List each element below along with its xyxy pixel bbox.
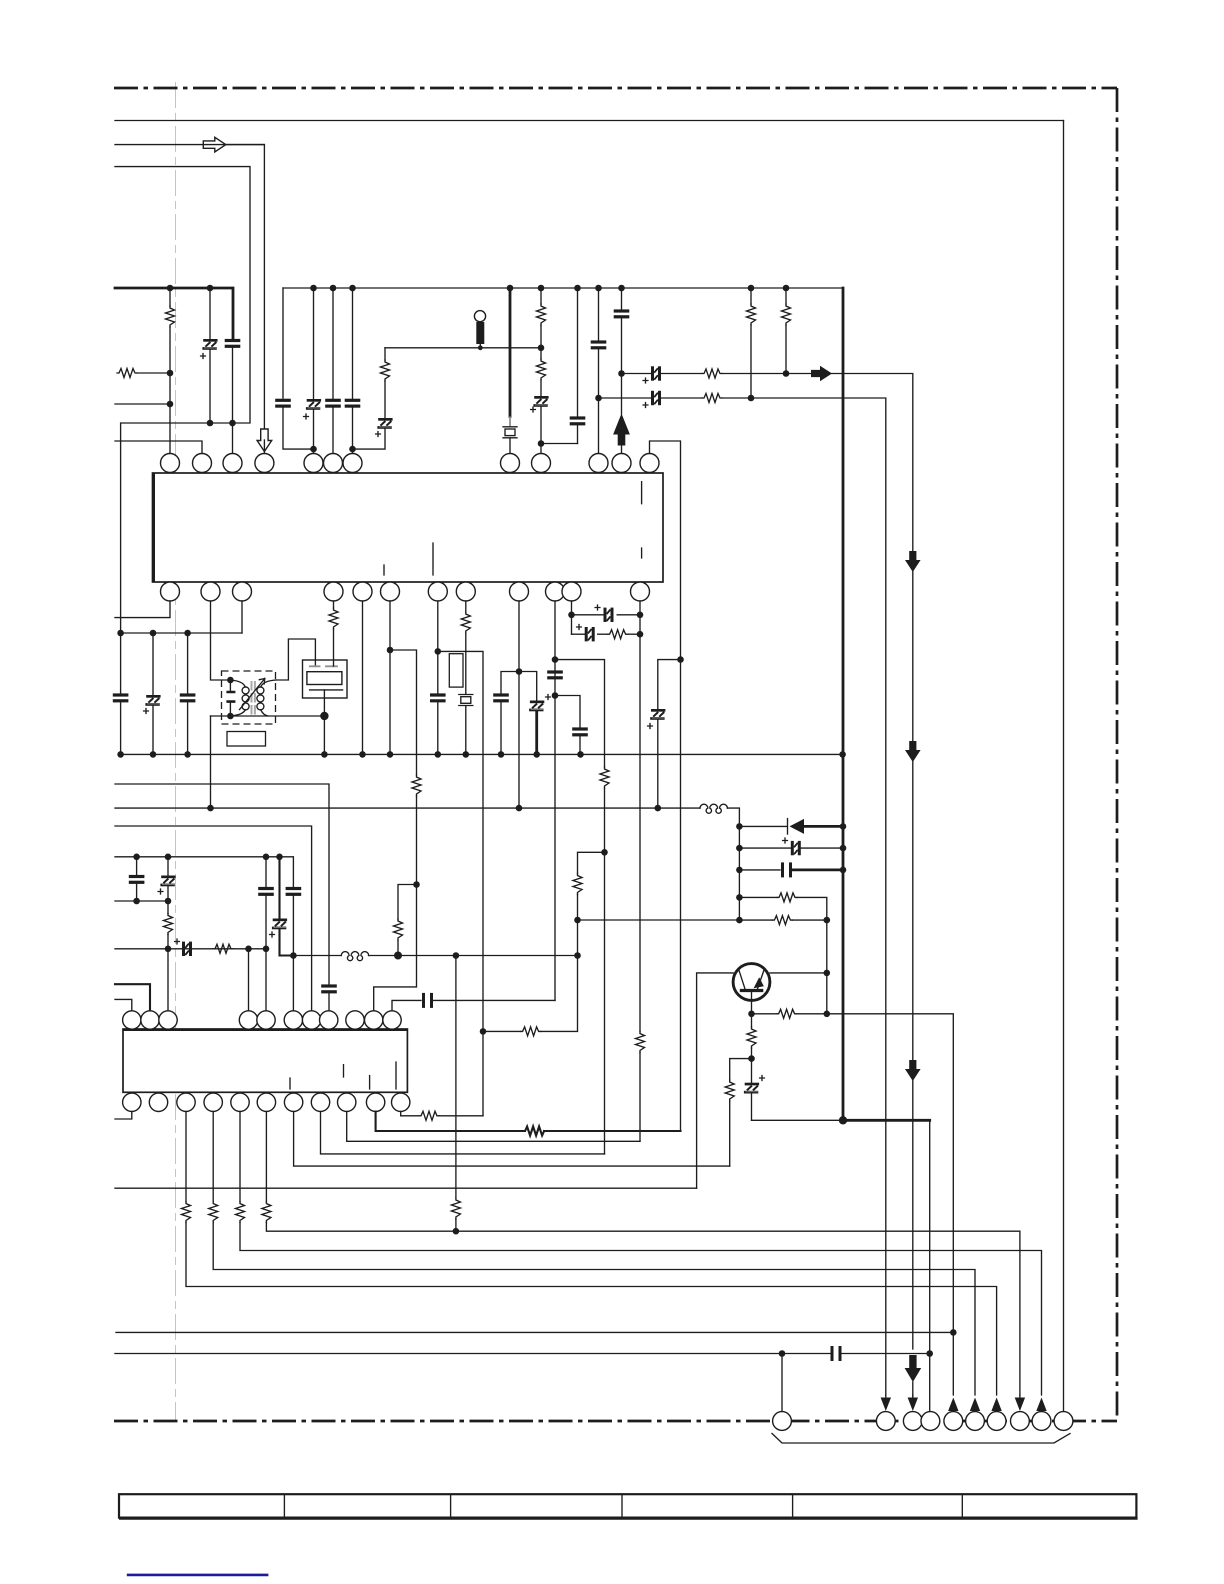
wire out row V2 (bold-ish) (376, 1112, 523, 1132)
capacitor C17 (493, 693, 509, 702)
wire C25 to feed (bold) (793, 869, 843, 872)
wire out row V1 (401, 1112, 419, 1116)
border dash-dot bottom (114, 1420, 1117, 1423)
resistor R12 (465, 601, 467, 612)
U1 bottom pin (428, 582, 447, 601)
node J52 (165, 946, 172, 953)
wire AF2 out right (751, 398, 886, 1395)
wire U2 pin2 stub (bold) (115, 984, 150, 1011)
IC U2 (stereo decoder) (123, 1029, 407, 1092)
U1 top pin (193, 454, 212, 473)
wire pin 9 lead (540, 444, 542, 454)
column junction (736, 823, 743, 830)
resistor R29 (451, 1198, 460, 1219)
ground junction (533, 751, 540, 758)
U1 bottom pin (353, 582, 372, 601)
U1 top pin (532, 454, 551, 473)
connector CN1 pin 1 (773, 1412, 792, 1431)
U2 top pin (302, 1011, 320, 1029)
U2 bottom pin (284, 1093, 302, 1111)
signal arrow A1 (hollow right) (203, 137, 226, 152)
wire bus drop X1 (bold) (509, 288, 512, 417)
resistor R21 (213, 944, 233, 953)
wire L3 row right (369, 955, 578, 957)
connector CN1 pin 7 (987, 1412, 1006, 1431)
wire Q1 left electrode (697, 973, 734, 1188)
node J34 (516, 805, 523, 812)
node J57 (453, 952, 460, 959)
resistor R20 (167, 901, 169, 914)
wire U1 pin7b to ground (437, 601, 439, 694)
wire feed to connector (bold) (843, 1119, 930, 1122)
bus junction (595, 285, 602, 292)
node J12 (618, 370, 625, 377)
wire J53 to U2 pin4 (248, 949, 250, 1011)
ground junction (184, 751, 191, 758)
node J46 (133, 854, 140, 861)
wire arrow A2 to pin 4 (263, 440, 265, 454)
ground junction (387, 751, 394, 758)
U1 top pin (589, 454, 608, 473)
wire net IN3 (115, 403, 170, 405)
signal arrow A7 (down) (905, 1060, 921, 1081)
bus junction (310, 285, 317, 292)
U1 bottom pin (233, 582, 252, 601)
net W7 tuning row (293, 955, 341, 957)
bus junction (618, 285, 625, 292)
wire J23 branch right (555, 660, 605, 767)
node J54 (263, 946, 270, 953)
capacitor C11 (electrolytic horizontal) (651, 366, 661, 380)
resistor R27 (239, 1112, 241, 1202)
resistor R15 (739, 896, 777, 898)
border solid top (115, 120, 1064, 122)
node J18 (320, 712, 328, 720)
resistor R10 (333, 601, 335, 608)
wire U1 pin10b net (518, 601, 520, 808)
resistor R4 (540, 288, 542, 304)
inductor L1 (peaking coil) (474, 311, 485, 322)
capacitor C24 (electrolytic horizontal) (739, 847, 790, 849)
wire Q1 right electrode (770, 972, 827, 974)
node J50 (133, 898, 140, 905)
node J60 (480, 1028, 487, 1035)
U1 top pin (501, 454, 520, 473)
capacitor C34 (horizontal) (422, 993, 433, 1008)
connector CN1 pin 4 (921, 1412, 940, 1431)
U2 top pin (257, 1011, 275, 1029)
node J13 (783, 370, 790, 377)
wire R22 top hook (398, 885, 417, 920)
U2 top pin (141, 1011, 159, 1029)
bus junction (507, 285, 514, 292)
wire connector pin1 feed (781, 1354, 783, 1412)
capacitor C10 (621, 288, 623, 310)
node J16 (150, 630, 157, 637)
capacitor C12 (electrolytic horizontal) (651, 391, 661, 405)
wire J43 branch left (730, 1059, 752, 1080)
node J35 (840, 823, 847, 830)
ground junction (150, 751, 157, 758)
footer table (119, 1494, 1138, 1518)
U1 bottom pin (324, 582, 343, 601)
wire U2 pin1 stub (115, 999, 132, 1010)
node J26 (574, 952, 581, 959)
signal arrow A6 (down) (905, 741, 921, 762)
node J43 (748, 1055, 755, 1062)
wire X2 to ground bus (323, 690, 325, 755)
node J5 (167, 370, 174, 377)
connector CN1 pin 2 (876, 1412, 895, 1431)
signal arrow A2 (hollow down) (257, 429, 272, 452)
ground junction (321, 751, 328, 758)
resistor R14 (608, 630, 628, 639)
wire J21 branch to column (438, 651, 483, 1115)
IC U1 (FM/IF signal processor) (153, 473, 664, 582)
wire W1 (115, 784, 329, 985)
resistor R3 (381, 360, 390, 381)
node J30 (637, 631, 644, 638)
U1 bottom pin (562, 582, 581, 601)
wire J22 right branch (519, 672, 537, 701)
capacitor C13 (120, 633, 122, 694)
wire T1 secondary to X2 (276, 639, 316, 680)
net AGC row (578, 919, 740, 921)
U2 top pin (123, 1011, 141, 1029)
U1 bottom pin (456, 582, 475, 601)
node J27 (568, 612, 575, 619)
node J53 (245, 946, 252, 953)
wire X1 to pin 8 (509, 438, 511, 454)
node J38 (824, 917, 831, 924)
wire out row V4 (321, 1112, 605, 1154)
ground junction (839, 751, 846, 758)
capacitor C18 (electrolytic) (529, 701, 544, 712)
signal arrow A3 (solid up) (613, 414, 630, 446)
node J6 (167, 401, 174, 408)
wire W5 (115, 900, 168, 902)
node J9 (538, 345, 545, 352)
capacitor C4 (electrolytic) (313, 288, 315, 399)
U2 bottom pin (231, 1093, 249, 1111)
footer link underline (127, 1574, 269, 1577)
wire U1 pin1b to edge (115, 601, 170, 618)
arrowhead out of CN1 (up) (1036, 1398, 1046, 1412)
resistor R9 (785, 288, 787, 304)
U1 bottom pin (510, 582, 529, 601)
U2 bottom pin (257, 1093, 275, 1111)
node J10 (538, 440, 545, 447)
capacitor C5 (332, 288, 334, 399)
power feed vertical (bold) (842, 288, 845, 1120)
transistor Q1 (733, 964, 770, 1001)
resistor R13 (600, 767, 609, 788)
node J40 (748, 1011, 755, 1018)
bus junction (574, 285, 581, 292)
capacitor C6 (electrolytic) (384, 381, 386, 418)
node J8 (349, 446, 356, 453)
signal arrow A5 (down) (905, 551, 921, 572)
wire U1 pin5b to ground (362, 601, 364, 754)
node J31 (677, 656, 684, 663)
U2 bottom pin (204, 1093, 222, 1111)
U2 bottom pin (392, 1093, 410, 1111)
wire C6 down to node J8 (353, 429, 386, 449)
arrowhead into CN1 (down) (881, 1398, 891, 1412)
connector CN1 pin 6 (966, 1412, 985, 1431)
U2 bottom pin (149, 1093, 167, 1111)
node J20 (413, 881, 420, 888)
U1 marking strokes (384, 482, 642, 575)
resistor R18 (751, 1014, 753, 1027)
resistor R17 (752, 1013, 777, 1015)
wire J19 branch (390, 650, 417, 775)
node J29 (637, 612, 644, 619)
row net AF2 (599, 397, 652, 399)
resistor R25 (185, 1112, 187, 1202)
signal arrow A4 (solid right) (811, 366, 832, 382)
node T1 top (227, 677, 234, 684)
U2 top pin (239, 1011, 257, 1029)
node J49 (276, 854, 283, 861)
node J41 (824, 1011, 831, 1018)
node J21 (435, 648, 442, 655)
node J37 (840, 867, 847, 874)
resistor R32 (578, 852, 605, 873)
wire A3 to pin 11 (621, 444, 623, 454)
resistor R19 (725, 1080, 734, 1101)
connector CN1 pin 9 (1032, 1412, 1051, 1431)
capacitor C29 (electrolytic horizontal) (182, 942, 192, 956)
resistor R22 (397, 941, 399, 956)
node J11 (595, 395, 602, 402)
node J3 (167, 285, 174, 292)
U2 top pin (284, 1011, 302, 1029)
resistor R24 (523, 1127, 544, 1136)
U1 bottom pin (161, 582, 180, 601)
U2 top pin (383, 1011, 401, 1029)
U2 marking strokes (290, 1062, 396, 1089)
U2 bottom pin (338, 1093, 356, 1111)
wire bias row (385, 347, 541, 349)
wire U1 pin6b to ground (389, 601, 391, 754)
page fold marker line (175, 82, 177, 1420)
wire U1 pin12 hook (650, 441, 681, 1131)
arrowhead out of CN1 (up) (991, 1398, 1001, 1412)
wire L2 to column (727, 808, 739, 920)
wire out row V5 (294, 1112, 730, 1167)
U2 top pin (365, 1011, 383, 1029)
wire C18 to ground (bold) (535, 712, 538, 755)
bus junction (748, 285, 755, 292)
capacitor C8 (577, 288, 579, 417)
connector CN1 pin 3 (903, 1412, 922, 1431)
wire net IN2 (115, 167, 250, 633)
wire long net V8 (115, 1353, 830, 1355)
node J58 (453, 1228, 460, 1235)
resistor R2 (horizontal) (117, 369, 137, 378)
diode D1 (739, 825, 787, 827)
node J36 (840, 845, 847, 852)
wire U1 pin2b to T1 (211, 601, 231, 680)
wire long net V6 (115, 1187, 697, 1189)
capacitor C21 (electrolytic horizontal) (572, 614, 604, 616)
wire C1 to pin 3 (232, 348, 234, 454)
bus junction (349, 285, 356, 292)
capacitor C1 (225, 339, 241, 348)
U1 top pin (223, 454, 242, 473)
capacitor C31 (electrolytic, bold leads) (278, 857, 280, 919)
U1 top pin (304, 454, 323, 473)
node J45 (926, 1350, 933, 1357)
capacitor C25 (horizontal) (739, 869, 780, 871)
U2 top pin (159, 1011, 177, 1029)
capacitor C26 (electrolytic) (751, 1059, 753, 1083)
U1 top pin (640, 454, 659, 473)
connector CN1 pin 10 (1054, 1412, 1073, 1431)
node J1 (207, 420, 214, 427)
U1 bottom pin (631, 582, 650, 601)
bus junction (330, 285, 337, 292)
border solid right (1063, 121, 1065, 1412)
capacitor C23 (electrolytic) (658, 660, 681, 709)
arrowhead out of CN1 (up) (970, 1398, 980, 1412)
capacitor C6b (352, 288, 354, 399)
node J4 (207, 285, 214, 292)
signal arrow A8 (big down) (905, 1355, 922, 1382)
resistor R16 (739, 919, 772, 921)
capacitor C20 (572, 727, 588, 736)
wire R11 chain down (374, 885, 417, 1011)
U1 bottom pin (201, 582, 220, 601)
connector CN1 pin 8 (1011, 1412, 1030, 1431)
wire C35 to connector column (842, 1353, 930, 1355)
column junction (736, 845, 743, 852)
capacitor C9 (598, 288, 600, 341)
wire W3 (115, 826, 312, 1011)
column junction (736, 867, 743, 874)
wire U1 pin3b (241, 601, 243, 633)
wire J38 down (826, 920, 828, 1014)
node J32 (655, 805, 662, 812)
bus junction (538, 285, 545, 292)
node T1 bottom (227, 713, 234, 720)
U1 top pin (161, 454, 180, 473)
supply rail net B1 (115, 807, 700, 809)
inductor L2 (700, 804, 727, 813)
node J2 (229, 420, 236, 427)
U2 bottom pin (311, 1093, 329, 1111)
node J17 (184, 630, 191, 637)
node J15 (117, 630, 124, 637)
node J44 (bold) (839, 1116, 847, 1124)
wire emitter row to connector column (827, 1014, 954, 1395)
node J24 (552, 692, 559, 699)
ground junction (359, 751, 366, 758)
wire C34 to U1 pin11b (433, 999, 555, 1001)
wire U1 pin13b net (639, 601, 641, 1032)
node J47 (165, 854, 172, 861)
resistor R28 (265, 1112, 267, 1202)
connector CN1 pin 5 (944, 1412, 963, 1431)
capacitor C32 (286, 887, 302, 896)
wire pin 2 stub (115, 441, 202, 454)
resistor R6 (702, 369, 722, 378)
border dash-dot top (114, 87, 1117, 90)
capacitor C14 (electrolytic) (152, 633, 154, 695)
inductor L3 (341, 952, 368, 961)
wire J26 down to R30 row (541, 956, 578, 1032)
wire U1 pin12b row1 (571, 601, 573, 634)
resistor R31 (636, 1032, 645, 1053)
U2 bottom pin (177, 1093, 195, 1111)
ground junction (577, 751, 584, 758)
node J59 (779, 1350, 786, 1357)
capacitor C27 (136, 857, 138, 876)
wire node chain R3 (384, 348, 386, 360)
row net AF1 (622, 373, 652, 375)
node J7 (310, 446, 317, 453)
capacitor C28 (electrolytic) (167, 857, 169, 876)
wire D1 to feed (bold) (804, 825, 843, 828)
capacitor C7 (electrolytic) (533, 396, 548, 407)
wire J10 row (541, 443, 578, 445)
U2 top pin (320, 1011, 338, 1029)
wire U2 pin1b stub (115, 1112, 132, 1120)
node J48 (263, 854, 270, 861)
U1 top pin (343, 454, 362, 473)
node J39 (824, 970, 831, 977)
wire net IN1 with arrow (115, 145, 264, 428)
capacitor C22 (electrolytic horizontal) (572, 633, 585, 635)
ceramic discriminator X2 (303, 660, 348, 698)
node J42 (950, 1329, 957, 1336)
resistor R7 (702, 394, 722, 403)
capacitor C19 (547, 670, 563, 679)
wire over arrow A1 (203, 144, 264, 146)
node J51 (165, 898, 172, 905)
node J33 (207, 805, 214, 812)
arrowhead out of CN1 (up) (948, 1398, 958, 1412)
ground junction (463, 751, 470, 758)
border dash-dot right (1116, 88, 1119, 1421)
wire emitter net to feed (bold junction) (752, 1119, 844, 1121)
wire U2 pin10 hook via J20 (455, 956, 457, 1198)
column junction (736, 917, 743, 924)
U1 top pin (324, 454, 343, 473)
U1 bottom pin (381, 582, 400, 601)
wire W6 (115, 948, 266, 950)
resistor R8 (750, 288, 752, 304)
resistor R26 (212, 1112, 214, 1202)
resistor R11 (412, 775, 421, 796)
wire U2 pin11 row (392, 1000, 421, 1010)
capacitor C33 (321, 984, 337, 993)
node J22 (516, 668, 523, 675)
node J25 (574, 917, 581, 924)
node J56 (394, 952, 402, 960)
wire out row V3 (347, 1112, 640, 1142)
U1 top pin (612, 454, 631, 473)
wire U1 pin11b net (554, 601, 556, 1000)
U2 top pin (346, 1011, 364, 1029)
arrowhead into CN1 (down) (1015, 1398, 1025, 1412)
power bus VCC2 (283, 287, 843, 289)
ceramic resonator X1 (503, 427, 517, 438)
U1 bottom pin (546, 582, 565, 601)
capacitor C30 (265, 857, 267, 888)
ground bus GND1 (121, 753, 843, 755)
